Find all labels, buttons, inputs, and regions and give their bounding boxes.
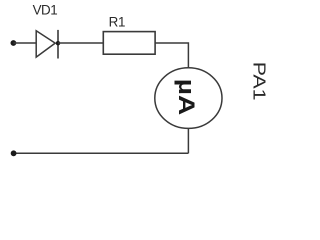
svg-text:PA1: PA1 <box>249 62 269 101</box>
svg-text:VD1: VD1 <box>33 3 58 18</box>
diode VD1 <box>36 30 58 59</box>
resistor R1 <box>103 32 155 55</box>
svg-text:R1: R1 <box>109 15 126 30</box>
junction (diode cathode node) <box>56 41 60 45</box>
terminal (top input) <box>11 40 17 46</box>
terminal (bottom input) <box>11 150 17 156</box>
wire (meter bottom to bottom rail) <box>187 128 189 153</box>
wire (R1 to meter top, corner) <box>155 43 188 68</box>
wire (bottom rail) <box>13 152 188 154</box>
wire (terminal to diode anode) <box>13 42 36 44</box>
meter PA1 (microammeter) <box>155 68 222 129</box>
wire (diode to R1) <box>58 42 103 44</box>
svg-text:µA: µA <box>174 79 198 116</box>
